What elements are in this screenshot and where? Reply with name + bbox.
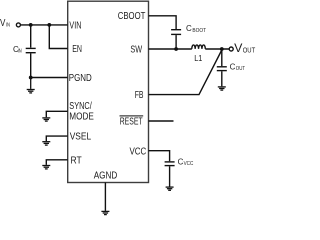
svg-text:PGND: PGND (69, 73, 92, 84)
terminal VOUT circle (229, 47, 233, 51)
svg-text:V: V (0, 18, 6, 29)
svg-text:MODE: MODE (69, 111, 94, 122)
svg-text:SYNC/: SYNC/ (69, 101, 92, 112)
op-amp U1 IC body (68, 1, 149, 182)
wire CBOOT to capacitor (149, 16, 177, 29)
svg-text:CBOOT: CBOOT (118, 11, 146, 22)
ground (VSEL) (42, 142, 50, 145)
svg-text:BOOT: BOOT (192, 28, 206, 34)
wire EN branch (49, 25, 67, 49)
svg-text:C: C (186, 24, 192, 33)
wire SYNC/MODE to ground (46, 111, 67, 117)
wire VCC to capacitor (149, 151, 170, 162)
svg-text:IN: IN (18, 49, 22, 55)
junction dot EN/VIN (47, 23, 51, 27)
capacitor COUT (221, 49, 223, 66)
capacitor CVCC (165, 161, 175, 163)
ground (CVCC) (166, 187, 174, 190)
svg-text:OUT: OUT (243, 45, 256, 54)
svg-text:EN: EN (72, 44, 82, 55)
inductor L1 (192, 45, 206, 49)
svg-text:RT: RT (71, 155, 82, 166)
junction dot CIN/VIN (29, 23, 33, 27)
svg-text:C: C (230, 62, 236, 71)
svg-text:VIN: VIN (69, 20, 81, 31)
wire RT to ground (46, 160, 67, 165)
wire SW to inductor (149, 48, 192, 50)
svg-text:IN: IN (6, 23, 10, 29)
svg-text:VCC: VCC (184, 161, 194, 167)
ground (RT) (42, 166, 50, 169)
ground (AGND) (101, 211, 109, 214)
ground (SYNC/MODE) (42, 118, 50, 121)
terminal VIN circle (16, 23, 20, 27)
junction dot PGND/CIN (29, 76, 33, 80)
wire AGND to ground (104, 183, 106, 211)
wire PGND (31, 77, 68, 79)
svg-text:VSEL: VSEL (70, 132, 92, 143)
wire VIN to pin (21, 24, 68, 26)
wire inductor to VOUT (205, 48, 229, 50)
svg-text:L1: L1 (194, 53, 202, 63)
svg-text:RESET: RESET (120, 117, 143, 128)
svg-text:AGND: AGND (94, 170, 118, 181)
svg-text:FB: FB (135, 90, 144, 101)
wire RESET (floating) (149, 120, 174, 122)
svg-text:SW: SW (130, 45, 142, 56)
svg-text:V: V (234, 41, 242, 55)
ground (PGND/CIN) (27, 78, 35, 93)
capacitor CIN (30, 25, 32, 48)
svg-text:VCC: VCC (130, 146, 147, 157)
junction dot SW/CBOOT (174, 47, 178, 51)
capacitor CBOOT (171, 29, 181, 31)
wire FB to VOUT node (149, 50, 222, 95)
ground (COUT) (218, 87, 226, 90)
wire VSEL to ground (46, 136, 67, 141)
svg-text:OUT: OUT (236, 66, 246, 72)
RESET overline (120, 115, 144, 117)
junction dot VOUT/COUT (220, 47, 224, 51)
